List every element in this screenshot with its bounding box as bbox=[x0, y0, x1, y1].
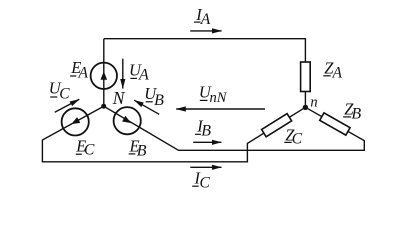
svg-text:C: C bbox=[59, 86, 70, 103]
svg-text:C: C bbox=[200, 175, 211, 192]
svg-text:nN: nN bbox=[210, 90, 228, 106]
svg-text:C: C bbox=[292, 131, 303, 148]
svg-text:A: A bbox=[138, 67, 149, 84]
svg-text:B: B bbox=[201, 123, 211, 140]
svg-text:B: B bbox=[137, 143, 147, 160]
svg-text:n: n bbox=[310, 94, 317, 110]
svg-text:A: A bbox=[200, 11, 211, 28]
svg-text:C: C bbox=[84, 142, 95, 159]
svg-text:B: B bbox=[351, 106, 361, 123]
svg-text:N: N bbox=[112, 88, 126, 108]
svg-text:A: A bbox=[332, 64, 343, 81]
svg-text:B: B bbox=[154, 92, 164, 109]
svg-text:A: A bbox=[78, 64, 89, 81]
